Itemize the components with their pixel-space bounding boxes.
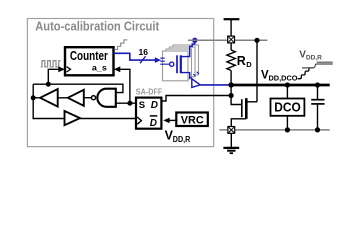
wire left rail xyxy=(33,84,64,118)
wire riser drain to VDD rail xyxy=(256,40,258,102)
node B junction xyxy=(229,93,234,98)
switch crossed square top xyxy=(228,36,235,43)
nmos M2 gate bar xyxy=(241,99,243,117)
svg-text:DD,R: DD,R xyxy=(306,55,322,62)
pmos source wire to VDD rail xyxy=(181,40,195,56)
bus wire 16-bit xyxy=(114,53,156,60)
ground xyxy=(223,133,239,153)
node junction left rail xyxy=(31,95,36,100)
wire SA-DFF D output to gate node xyxy=(161,96,231,102)
svg-text:DD,R: DD,R xyxy=(173,135,191,144)
transistor array card stack xyxy=(163,45,199,81)
VDD gray rail xyxy=(188,39,267,41)
DCO block xyxy=(271,99,305,116)
wire between inverters xyxy=(58,97,68,99)
svg-text:Counter: Counter xyxy=(70,48,108,63)
svg-text:16: 16 xyxy=(139,47,149,57)
node junction riser on VDD rail xyxy=(254,38,259,43)
wire rail to DCO xyxy=(286,85,288,99)
counter output staircase symbol xyxy=(114,40,127,50)
node blue dot on VDD rail xyxy=(192,38,197,43)
VDD,DCO thick rail xyxy=(231,84,330,87)
svg-text:SA-DFF: SA-DFF xyxy=(136,87,163,96)
counter U1 xyxy=(65,47,114,75)
clock waveform symbol xyxy=(41,61,61,67)
wire node to nmos gate xyxy=(231,85,241,105)
wire inverter to NAND bubble xyxy=(84,97,92,99)
wire NAND lower input / S line xyxy=(116,102,136,104)
resistor RD xyxy=(227,50,235,70)
node junction cap top xyxy=(315,82,320,87)
drain echo stubs xyxy=(190,72,199,79)
svg-text:DD,DCO: DD,DCO xyxy=(269,74,298,83)
switch crossed square bottom xyxy=(228,127,235,134)
svg-text:S: S xyxy=(139,100,145,111)
wire counter clock input xyxy=(48,69,59,84)
wire VRC to SA-DFF Dbar xyxy=(169,119,177,121)
NAND gate (left facing) xyxy=(91,96,95,100)
svg-text:Auto-calibration Circuit: Auto-calibration Circuit xyxy=(35,19,160,34)
ground gray rail xyxy=(219,129,329,131)
wire buffer output to SA-DFF clock xyxy=(80,118,136,120)
node junction S line xyxy=(127,101,132,106)
buffer B1 xyxy=(65,111,81,125)
wire a_s feedback xyxy=(120,69,130,103)
wire DCO to ground rail xyxy=(286,116,288,130)
wire resistor to thick rail xyxy=(230,70,232,85)
svg-text:a_s: a_s xyxy=(92,63,107,73)
wire top loop to NAND input xyxy=(33,84,123,92)
nmos source wire xyxy=(231,119,246,127)
node junction on loop wire xyxy=(46,82,51,87)
node junction xyxy=(285,127,290,132)
VRC block xyxy=(176,113,208,127)
svg-text:VRC: VRC xyxy=(181,114,204,126)
nmos M2 channel bar xyxy=(245,98,248,119)
auto-calibration circuit enclosure box xyxy=(27,19,213,147)
node A junction xyxy=(228,82,233,87)
SA-DFF flip-flop U2 xyxy=(136,98,161,129)
node junction cap bottom xyxy=(315,127,320,132)
inverter 2 xyxy=(68,90,84,106)
svg-text:D: D xyxy=(246,60,252,69)
inverter chain wire xyxy=(33,97,40,99)
node junction xyxy=(285,82,290,87)
pmos drain wire xyxy=(181,73,190,79)
bus slash xyxy=(140,56,146,63)
pmos M1 gate bar xyxy=(176,55,178,73)
svg-text:R: R xyxy=(237,54,246,68)
capacitor C1 xyxy=(311,85,324,130)
bus gate stubs xyxy=(160,58,169,64)
pmos M1 channel bar xyxy=(180,55,182,73)
inverter 1 xyxy=(40,89,58,107)
svg-text:DCO: DCO xyxy=(274,100,301,115)
power VDD symbol xyxy=(224,18,240,20)
nmos drain wire xyxy=(246,101,257,103)
wire switch to resistor xyxy=(230,43,232,50)
VDD,R staircase symbol xyxy=(302,64,333,68)
svg-text:D: D xyxy=(150,118,157,129)
pmos M1 gate bubble xyxy=(170,62,174,66)
drain bundle triangle xyxy=(192,79,200,88)
VDD,DCO staircase symbol xyxy=(298,68,314,79)
svg-text:D: D xyxy=(151,100,158,111)
wire bundle to node A xyxy=(200,84,231,86)
